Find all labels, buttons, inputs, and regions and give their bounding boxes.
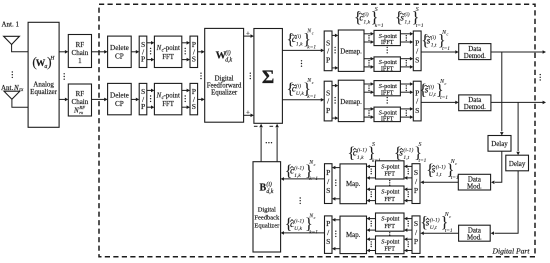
svg-text:Equalizer: Equalizer [211, 90, 238, 97]
digital feedforward equalizer Wdk [205, 28, 244, 122]
svg-text:RF: RF [76, 90, 85, 98]
svg-text:k=1: k=1 [309, 229, 318, 235]
antenna Ant.1 [4, 36, 20, 44]
svg-text:k=1: k=1 [309, 176, 318, 182]
svg-text:-point: -point [164, 45, 180, 52]
wires FFT to map lower userU [369, 238, 375, 240]
svg-text:Equalizer: Equalizer [254, 223, 280, 230]
svg-text:Delete: Delete [110, 44, 129, 52]
dots between IFFT boxes userU [387, 97, 388, 98]
demapper userU [338, 80, 364, 121]
svg-text:FFT: FFT [384, 196, 395, 203]
svg-text:CP: CP [115, 100, 124, 108]
delete CP 1 [108, 36, 132, 67]
wire W to summation row2 plus [244, 114, 252, 116]
P/S converter row1 [190, 36, 198, 67]
svg-text:Feedforward: Feedforward [207, 83, 242, 90]
node label set c hat 1k Nc [285, 160, 319, 182]
svg-text:(i): (i) [296, 82, 301, 89]
Nc-point FFT row1 [154, 36, 181, 67]
svg-text:(i): (i) [431, 34, 436, 41]
wires demap to IFFT lower userU [364, 108, 371, 110]
svg-text:FFT: FFT [162, 101, 175, 108]
svg-text:U,k: U,k [294, 226, 302, 232]
svg-text:c: c [449, 214, 451, 219]
analog equalizer (Wa)^H [28, 22, 59, 127]
delete CP 2 [108, 83, 132, 114]
RF chain 1 [68, 35, 91, 68]
svg-text:S: S [414, 168, 418, 177]
svg-text:P: P [414, 237, 418, 246]
svg-text:k=1: k=1 [307, 94, 316, 100]
wire data demod 2 output [491, 101, 544, 103]
P/S demap row userU [413, 81, 421, 121]
dots between B input labels [300, 197, 301, 198]
S-point IFFT upper userU [374, 81, 400, 96]
S-point IFFT lower user1 [374, 57, 400, 72]
svg-text:P: P [326, 56, 330, 65]
svg-text:(i-1): (i-1) [430, 216, 440, 223]
delay element 1 [488, 136, 511, 152]
wires demap to IFFT upper user1 [364, 33, 371, 35]
wire P/S to data demod 1 [421, 51, 456, 53]
svg-text:IFFT: IFFT [381, 65, 394, 72]
svg-text:(i-1): (i-1) [403, 146, 413, 153]
wire delay 2 to data mod 2 [495, 171, 519, 233]
P/S demap row user1 [413, 31, 421, 71]
svg-text:-point: -point [385, 164, 400, 171]
delay element 2 [506, 155, 529, 171]
svg-text:c: c [314, 162, 316, 167]
dots between antennas [12, 71, 13, 72]
data modulator 1 [458, 174, 490, 190]
S-point IFFT upper user1 [374, 30, 400, 45]
svg-text:(i): (i) [225, 49, 231, 56]
svg-text:N: N [73, 106, 79, 114]
node label set s hat 1t Nc [426, 159, 459, 181]
svg-text:k=1: k=1 [307, 45, 316, 51]
S/P demap row user1 [324, 31, 332, 71]
RF chain Nrf [68, 84, 91, 116]
demapper user1 [338, 30, 364, 71]
svg-text:IFFT: IFFT [381, 89, 394, 96]
svg-text:-point: -point [385, 216, 400, 223]
svg-text:Data: Data [468, 177, 481, 184]
wire delay 1 to data mod 1 [495, 151, 502, 182]
svg-text:FFT: FFT [384, 246, 395, 253]
wires FFT to map upper userU [369, 218, 375, 220]
svg-text:(i): (i) [363, 11, 368, 18]
S-point FFT upper user1 [376, 161, 405, 179]
wire P/S to data demod 2 [421, 101, 456, 103]
svg-text:RF: RF [78, 105, 85, 110]
svg-text:Mod.: Mod. [467, 184, 482, 191]
svg-text:Map.: Map. [346, 181, 361, 188]
svg-text:1: 1 [78, 57, 82, 65]
wires map to feedback P/S user1 [335, 167, 340, 169]
Nc-point FFT row2 [154, 83, 181, 114]
wire delete CP 2 to S/P [131, 98, 136, 100]
P/S converter row2 [190, 83, 198, 114]
wires map to feedback P/S userU [335, 219, 340, 221]
svg-text:Demap.: Demap. [340, 49, 362, 56]
wire feedback P/S to B row1 [283, 178, 324, 180]
svg-text:c: c [312, 30, 314, 35]
wires S/P to FFT row2 [147, 89, 152, 91]
svg-text:-point: -point [385, 189, 400, 196]
svg-text:rx: rx [79, 110, 83, 115]
svg-text:Digital: Digital [258, 207, 276, 214]
svg-text:Map.: Map. [346, 232, 361, 239]
wire data demod 1 output [491, 51, 544, 53]
node label set c hat Uk Nc [285, 213, 319, 235]
wire P/S row2 to feedforward equalizer [198, 98, 203, 100]
wire antenna2 to analog equalizer [12, 99, 28, 107]
svg-text:d,k: d,k [266, 189, 273, 195]
S-point FFT lower userU [376, 236, 405, 254]
wire RF chain 1 to delete CP 1 [92, 51, 106, 53]
wires S/P to FFT row1 [147, 42, 152, 44]
svg-text:+: + [246, 30, 250, 37]
mapper user1 [340, 164, 367, 204]
svg-text:t=1: t=1 [445, 228, 453, 234]
svg-text:1,k: 1,k [294, 173, 301, 179]
digital feedback equalizer Bdk [253, 162, 281, 252]
svg-text:RF: RF [76, 41, 85, 49]
svg-text:S: S [416, 7, 419, 13]
svg-text:Data: Data [468, 97, 481, 104]
svg-text:Chain: Chain [72, 49, 89, 57]
svg-text:1,t: 1,t [403, 155, 409, 161]
svg-text:c: c [445, 81, 447, 86]
wire feedback B to sigma line1 minus [260, 128, 262, 162]
feedback P/S userU [325, 216, 333, 254]
svg-text:c: c [455, 161, 457, 166]
wires demap to IFFT upper userU [364, 83, 371, 85]
wires IFFT to P/S lower user1 [400, 58, 410, 60]
node label set c hat 1k S [348, 142, 382, 164]
wires IFFT to P/S lower userU [400, 108, 410, 110]
svg-text:(i-1): (i-1) [357, 146, 367, 153]
wires IFFT to P/S upper userU [400, 83, 410, 85]
node label set c tilde 1k Nc [287, 29, 317, 51]
S/P demap row userU [324, 81, 332, 121]
wire RF chain N to delete CP 2 [92, 98, 106, 100]
svg-text:d,k: d,k [225, 57, 232, 63]
wires S/P to demap userU [332, 85, 336, 87]
wires feedback S/P to FFT lower user1 [407, 188, 412, 190]
node label set s tilde 1t S [395, 7, 424, 29]
dots between W outputs [250, 73, 251, 74]
svg-text:1,t: 1,t [436, 172, 442, 178]
dashed border digital part [99, 4, 535, 256]
svg-text:c: c [312, 80, 314, 85]
dots between sigma output labels [301, 60, 302, 61]
svg-text:S: S [419, 142, 422, 148]
wires S/P to demap user1 [332, 34, 336, 36]
wire demod2 output down to delay 2 [517, 102, 519, 151]
feedback S/P userU [412, 216, 420, 254]
svg-text:FFT: FFT [384, 171, 395, 178]
svg-text:t=1: t=1 [451, 175, 459, 181]
node label set s tilde Ut Nc [419, 79, 448, 101]
node label set s hat 1t S [394, 142, 427, 164]
wires FFT to map upper user1 [369, 165, 375, 167]
node label set s hat Ut Nc [420, 212, 453, 234]
antenna Ant.Nrx [4, 91, 20, 99]
feedback P/S user1 [325, 164, 333, 204]
svg-text:t=1: t=1 [440, 95, 448, 101]
svg-text:c: c [447, 32, 449, 37]
wire demod1 output down to delay 1 [501, 52, 503, 131]
svg-text:(i-1): (i-1) [436, 163, 446, 170]
svg-text:(i-1): (i-1) [294, 165, 304, 172]
svg-text:Ant. 1: Ant. 1 [2, 20, 20, 28]
svg-text:P: P [326, 219, 330, 228]
node label set c tilde Uk Nc [287, 78, 317, 100]
wires FFT to P/S row1 [182, 42, 188, 44]
wires IFFT to P/S upper user1 [400, 33, 410, 35]
wire W to summation row1 plus [244, 35, 252, 37]
S-point IFFT lower userU [374, 107, 400, 122]
svg-text:P: P [326, 168, 330, 177]
svg-text:Σ: Σ [262, 67, 274, 88]
data demodulator 1 [459, 44, 491, 60]
svg-text:1,t: 1,t [431, 43, 437, 49]
svg-text:FFT: FFT [162, 54, 175, 61]
dots between FFT boxes user1 [389, 180, 390, 181]
node label set s tilde 1t Nc [421, 30, 450, 52]
svg-text:(i): (i) [266, 181, 272, 188]
dots between RF chain wires [63, 73, 64, 74]
svg-text:Mod.: Mod. [467, 235, 482, 242]
svg-text:k=1: k=1 [375, 23, 384, 29]
svg-text:Delay: Delay [509, 161, 526, 168]
svg-text:S: S [326, 186, 330, 195]
svg-text:(i-1): (i-1) [294, 218, 304, 225]
svg-text:Data: Data [468, 46, 481, 53]
dots between feedback wires [266, 142, 267, 143]
svg-text:Feedback: Feedback [254, 215, 280, 222]
feedback S/P user1 [412, 164, 420, 204]
svg-text:S: S [192, 55, 196, 64]
svg-text:P: P [141, 55, 145, 64]
svg-text:S: S [375, 7, 378, 13]
data demodulator 2 [459, 95, 491, 111]
svg-text:1,k: 1,k [296, 41, 303, 47]
svg-text:CP: CP [115, 53, 124, 61]
wire antenna1 to analog equalizer [12, 45, 29, 52]
svg-text:FFT: FFT [384, 223, 395, 230]
wires feedback S/P to FFT upper user1 [407, 165, 412, 167]
svg-text:P: P [414, 186, 418, 195]
wire feedback B to sigma line2 minus [276, 128, 278, 162]
svg-text:U,t: U,t [430, 225, 437, 231]
svg-text:+: + [246, 110, 250, 117]
svg-text:(i): (i) [404, 11, 409, 18]
mapper userU [340, 216, 367, 254]
svg-text:Digital Part: Digital Part [492, 247, 531, 256]
svg-text:Delay: Delay [491, 141, 508, 148]
svg-text:Digital: Digital [215, 76, 234, 83]
dots between IFFT boxes user1 [387, 47, 388, 48]
dots between P/S outputs [200, 73, 201, 74]
wires FFT to P/S row2 [182, 89, 188, 91]
svg-text:-point: -point [385, 239, 400, 246]
svg-text:1,k: 1,k [363, 20, 370, 26]
svg-text:P: P [326, 106, 330, 115]
svg-text:P: P [141, 102, 145, 111]
svg-text:c: c [314, 215, 316, 220]
dots between outputs right edge [540, 74, 541, 75]
svg-text:S: S [192, 102, 196, 111]
wires feedback S/P to FFT lower userU [407, 238, 412, 240]
wire analog equalizer to RF chain Nrf [59, 98, 66, 100]
svg-text:1,t: 1,t [404, 20, 410, 26]
svg-text:S: S [372, 142, 375, 148]
svg-text:IFFT: IFFT [381, 39, 394, 46]
wire data mod 1 to feedback S/P row1 [423, 181, 458, 183]
wires demap to IFFT lower user1 [364, 58, 371, 60]
S-point FFT lower user1 [376, 186, 405, 204]
svg-text:S: S [414, 219, 418, 228]
svg-text:S: S [326, 237, 330, 246]
svg-text:S: S [415, 56, 419, 65]
summation node sigma [254, 29, 283, 124]
svg-text:N: N [13, 84, 19, 92]
dots between FFT boxes userU [389, 232, 390, 233]
wire P/S row1 to feedforward equalizer [198, 51, 203, 53]
S-point FFT upper userU [376, 213, 405, 231]
svg-text:Demod.: Demod. [464, 104, 486, 111]
node label set c tilde 1k S [354, 7, 384, 29]
svg-text:(i): (i) [296, 33, 301, 40]
svg-text:Data: Data [468, 227, 481, 234]
svg-text:Ant.: Ant. [1, 84, 14, 92]
svg-text:1,k: 1,k [357, 155, 364, 161]
svg-text:t=1: t=1 [416, 23, 424, 29]
svg-text:IFFT: IFFT [381, 116, 394, 123]
svg-text:(i): (i) [429, 83, 434, 90]
wire sigma to S/P demap row2 [282, 99, 321, 101]
svg-text:-point: -point [164, 93, 180, 100]
wires feedback S/P to FFT upper userU [407, 218, 412, 220]
svg-text:Demod.: Demod. [464, 53, 486, 60]
S/P converter row1 [139, 36, 147, 67]
svg-text:Delete: Delete [110, 91, 129, 99]
wire feedback P/S to B row2 [283, 232, 324, 234]
S/P converter row2 [139, 83, 147, 114]
wire delete CP 1 to S/P [131, 51, 136, 53]
svg-text:S: S [415, 106, 419, 115]
wire sigma to S/P demap row1 [282, 49, 321, 51]
wires FFT to map lower user1 [369, 188, 375, 190]
svg-text:Demap.: Demap. [340, 99, 362, 106]
wire data mod 2 to feedback S/P row2 [423, 232, 459, 234]
svg-text:Equalizer: Equalizer [30, 88, 57, 96]
data modulator 2 [459, 225, 491, 241]
svg-text:t=1: t=1 [442, 46, 450, 52]
wire analog equalizer to RF chain 1 [59, 51, 66, 53]
